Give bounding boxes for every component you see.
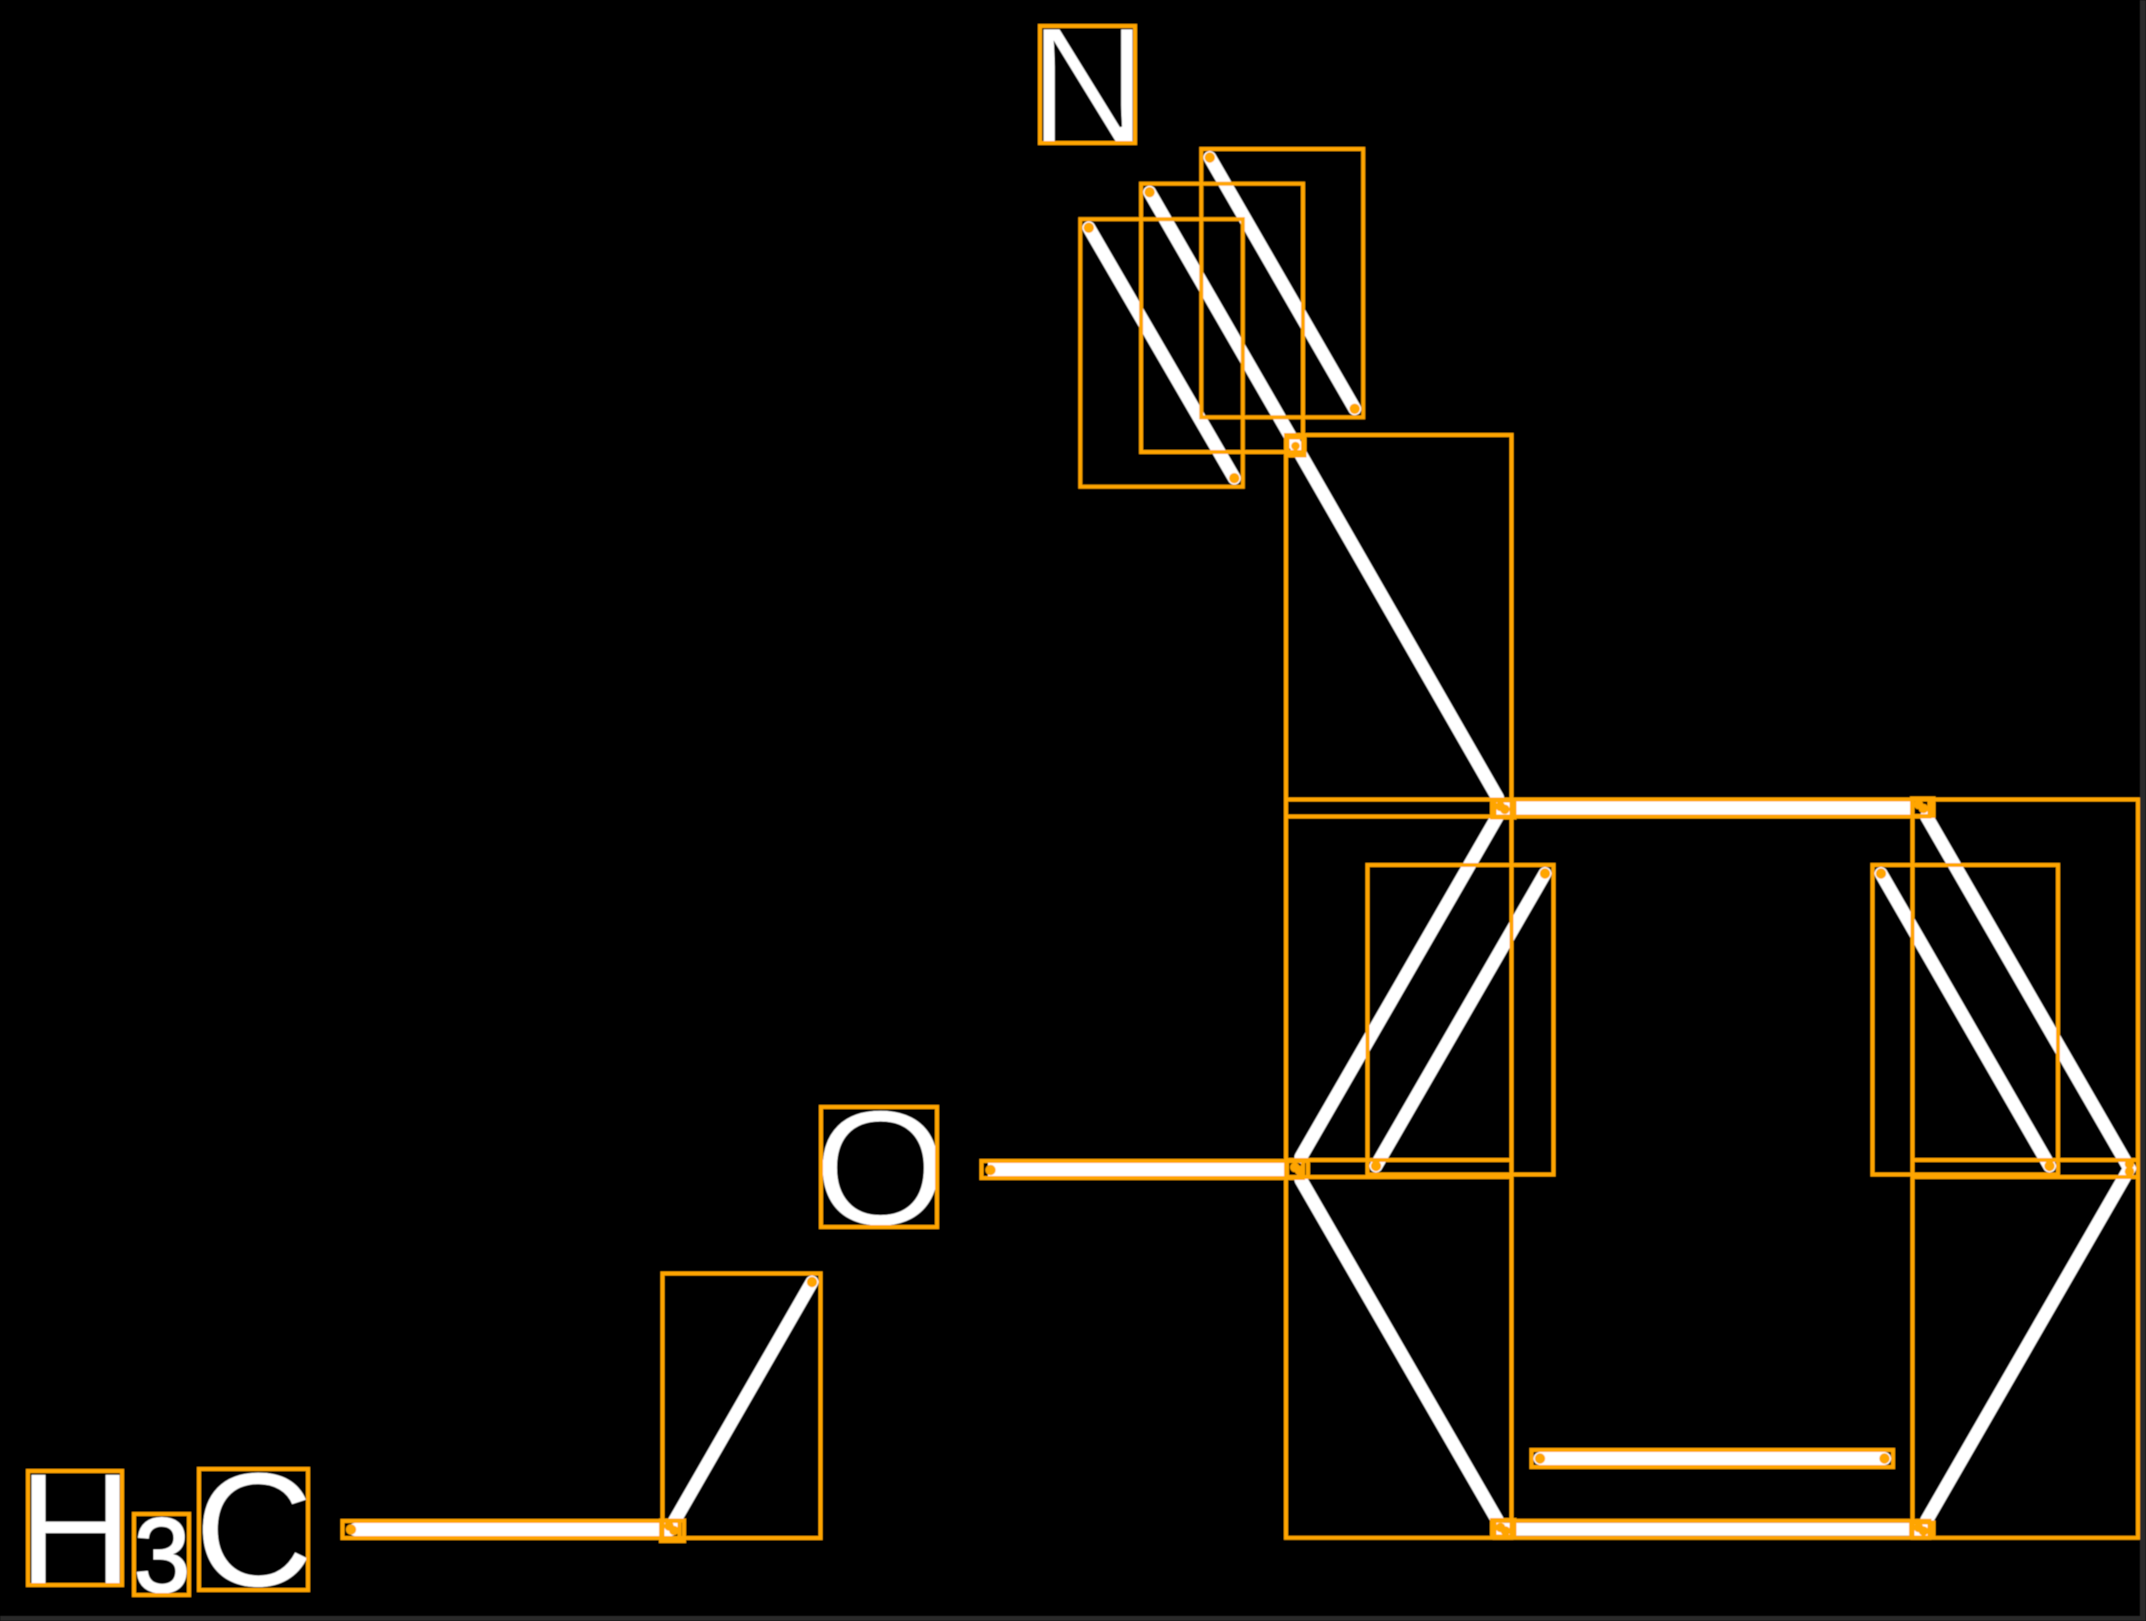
bond C#N triple line mid [1150,192,1295,443]
bond CH3-CH2 [355,1523,671,1536]
bbox bond C6-C1 [1286,800,1512,1178]
bond inner double line C4-C5 [1540,1452,1885,1465]
node dot ring C2 [1914,800,1929,814]
bond ring C4-C5 bottom edge [1497,1523,1930,1536]
bond C#N triple line a (upper) [1210,158,1355,409]
bond O-C6 [988,1163,1289,1176]
node box CH2 [661,1521,684,1542]
bbox bond O-C6 [982,1161,1304,1178]
node dot inner line C6-C1 top [1540,868,1550,878]
node dot C7 [1291,442,1300,451]
node dot inner line C6-C1 bottom [1371,1161,1381,1171]
node dot triple line a bottom [1350,404,1360,414]
bbox inner line C2-C3 [1873,865,2059,1175]
bbox C#N triple line b [1080,219,1243,487]
label box H [28,1471,122,1585]
node dot ring C1 [1496,802,1510,815]
bbox bond C5-C6 [1286,1160,1512,1538]
bbox inner line C6-C1 [1368,865,1554,1175]
bond ring C1-C2 top edge [1497,802,1911,815]
svg-text:O: O [814,1076,948,1260]
bbox C#N triple line a [1201,149,1363,417]
node box ring C5 [1492,1520,1515,1537]
bbox bond C2-C3 [1913,800,2139,1178]
node dot triple line b bottom [1229,473,1239,483]
label box 3 [134,1514,189,1595]
node dot ring C5 [1496,1523,1511,1536]
node dot O bond left end [985,1165,995,1175]
node dot ring C4 [1914,1523,1929,1536]
svg-text:C: C [194,1438,314,1621]
node dot triple line mid top [1144,187,1154,197]
bond C7-C1 (nitrile C to ring C1) [1295,444,1498,798]
label box C [199,1469,308,1590]
node box ring C2 [1912,799,1934,817]
node dot inner line C4-C5 right [1879,1453,1889,1463]
bbox bond CH3-CH2 [343,1521,680,1538]
bottom edge strip [0,1616,2146,1621]
bbox C#N triple line mid [1141,184,1303,452]
node box ring C4 [1911,1523,1934,1538]
node dot CH3 bond left end [346,1524,356,1534]
bbox bond C3-C4 [1913,1160,2139,1538]
bbox inner line C4-C5 [1532,1450,1894,1467]
node dot inner line C2-C3 bottom [2044,1161,2054,1171]
bond ring C5-C6 [1301,1180,1498,1521]
bond ring C6-C1 [1301,817,1498,1158]
svg-text:H: H [18,1440,133,1620]
bond CH2-O [671,1282,812,1527]
bbox bond CH2-O [663,1274,821,1539]
bond inner double line C6-C1 [1376,874,1545,1167]
bond inner double line C2-C3 [1881,874,2050,1167]
label box O [821,1107,937,1227]
bbox bond C1-C2 [1495,800,1930,817]
node dot CH2-O top end [807,1277,817,1287]
node box ring C1 [1492,801,1515,818]
node dot triple line b top [1084,223,1094,233]
right edge strip [2140,0,2146,1621]
bbox bond C4-C5 [1495,1521,1930,1538]
node box C7 (nitrile carbon) [1288,438,1305,456]
label box N [1040,26,1135,143]
node dot inner line C4-C5 left [1535,1453,1545,1463]
node dot CH2 [664,1521,679,1535]
node dot inner line C2-C3 top [1876,868,1886,878]
node box ring C6 [1287,1161,1308,1177]
bond C#N triple line b (lower) [1089,228,1235,479]
bbox bond C7-C1 [1286,435,1512,817]
bond ring C2-C3-C4 (elbow at C3) [1927,817,2130,1521]
node dot ring C3 [2125,1159,2135,1176]
node dot triple line a top [1205,152,1215,162]
node dot ring C6 [1290,1163,1304,1176]
